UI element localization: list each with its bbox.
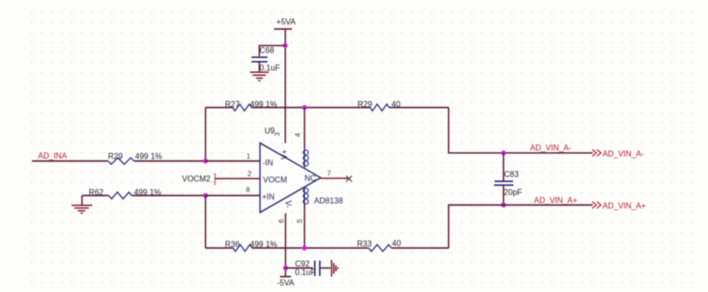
svg-text:499 1%: 499 1% [135, 152, 162, 161]
off-page connector AD_VIN_A- [592, 150, 644, 159]
ground rotated at C62 [332, 260, 338, 277]
wire R62 left to ground [82, 196, 109, 206]
svg-text:4: 4 [295, 133, 302, 137]
node C83 bottom junction [501, 203, 506, 208]
wire pin6 to -5VA [285, 213, 287, 276]
pin 5 coil [303, 187, 308, 204]
capacitor C83 [494, 170, 522, 197]
wire output A- [449, 108, 593, 153]
wire pin8 [206, 195, 261, 197]
node pin8 junction [203, 193, 208, 198]
bottom feedback wire y=248 [206, 247, 449, 249]
resistor R62 [89, 188, 161, 199]
resistor R36 [225, 240, 277, 251]
pin 4 coil [303, 149, 308, 169]
wire C68 branch [259, 46, 285, 57]
svg-text:499 1%: 499 1% [250, 240, 277, 249]
node +5VA/C68 junction [283, 43, 288, 48]
resistor R29 input [108, 152, 162, 164]
ground under C68 [250, 72, 269, 81]
svg-text:AD_VIN_A-: AD_VIN_A- [530, 144, 572, 153]
node V- junction [283, 266, 288, 271]
svg-text:V+: V+ [280, 149, 289, 159]
svg-text:-IN: -IN [263, 158, 274, 167]
svg-text:AD_INA: AD_INA [38, 152, 68, 161]
svg-text:R33: R33 [357, 240, 372, 249]
node C83 top junction [501, 151, 506, 156]
svg-text:20pF: 20pF [504, 188, 522, 197]
resistor R33 [357, 239, 401, 251]
wire top feedback y=107.5 [206, 107, 449, 109]
wire pin5 down [304, 204, 306, 248]
no-connect X [346, 176, 352, 182]
wire pin4 [304, 108, 306, 149]
wire AD_INA input [32, 160, 206, 162]
node pin1 junction [203, 159, 208, 164]
wire +5VA vertical to V+ pin [284, 29, 286, 143]
svg-text:5: 5 [297, 219, 304, 223]
svg-text:7: 7 [327, 171, 331, 178]
svg-text:40: 40 [392, 239, 401, 248]
node pin5/bottom junction [302, 246, 307, 251]
svg-text:C83: C83 [504, 170, 519, 179]
ground at R62 [72, 205, 93, 213]
power -5VA [277, 277, 295, 288]
svg-text:C68: C68 [260, 46, 275, 55]
power +5VA [274, 18, 296, 30]
wire left vertical to pin1 [205, 108, 207, 162]
wire C83 bottom lead [503, 186, 505, 206]
svg-text:AD8138: AD8138 [314, 197, 343, 206]
capacitor C68 [252, 46, 281, 73]
wire C62 branch [286, 267, 314, 269]
svg-text:499 1%: 499 1% [250, 100, 277, 109]
wire C62 to ground [320, 267, 331, 269]
capacitor C92 [295, 260, 320, 278]
node pin4/top wire junction [302, 105, 307, 110]
svg-text:-5VA: -5VA [277, 278, 295, 287]
resistor R29 feedback-output [358, 100, 401, 111]
wire pin7 [321, 177, 348, 179]
svg-text:2: 2 [248, 171, 252, 178]
svg-text:NC: NC [305, 174, 317, 183]
svg-text:VOCM2: VOCM2 [182, 175, 211, 184]
svg-text:0.1uF: 0.1uF [295, 268, 316, 277]
svg-text:8: 8 [246, 187, 250, 194]
svg-text:1: 1 [247, 154, 251, 161]
svg-text:+5VA: +5VA [276, 18, 296, 27]
wire C83 top lead [503, 153, 505, 181]
svg-text:0.1uF: 0.1uF [260, 64, 281, 73]
wire output A+ [449, 205, 593, 248]
wire R62 to pin8 [132, 195, 206, 197]
svg-text:V-: V- [283, 201, 292, 209]
svg-text:40: 40 [392, 100, 401, 109]
wire pin1 [206, 160, 261, 162]
wire C68 to ground [258, 62, 260, 72]
wire pin2 with end tick [215, 173, 260, 185]
svg-text:6: 6 [279, 219, 286, 223]
op-amp U9 AD8138 triangle [260, 127, 343, 223]
svg-text:+IN: +IN [262, 193, 275, 202]
svg-text:AD_VIN_A-: AD_VIN_A- [603, 150, 645, 159]
off-page connector AD_VIN_A+ [592, 202, 646, 211]
svg-text:AD_VIN_A+: AD_VIN_A+ [534, 196, 578, 205]
svg-text:3: 3 [275, 132, 282, 136]
resistor R27 [225, 100, 277, 111]
svg-text:AD_VIN_A+: AD_VIN_A+ [603, 202, 647, 211]
svg-text:VOCM: VOCM [263, 175, 287, 184]
wire left vertical pin8 to bottom [205, 196, 207, 249]
